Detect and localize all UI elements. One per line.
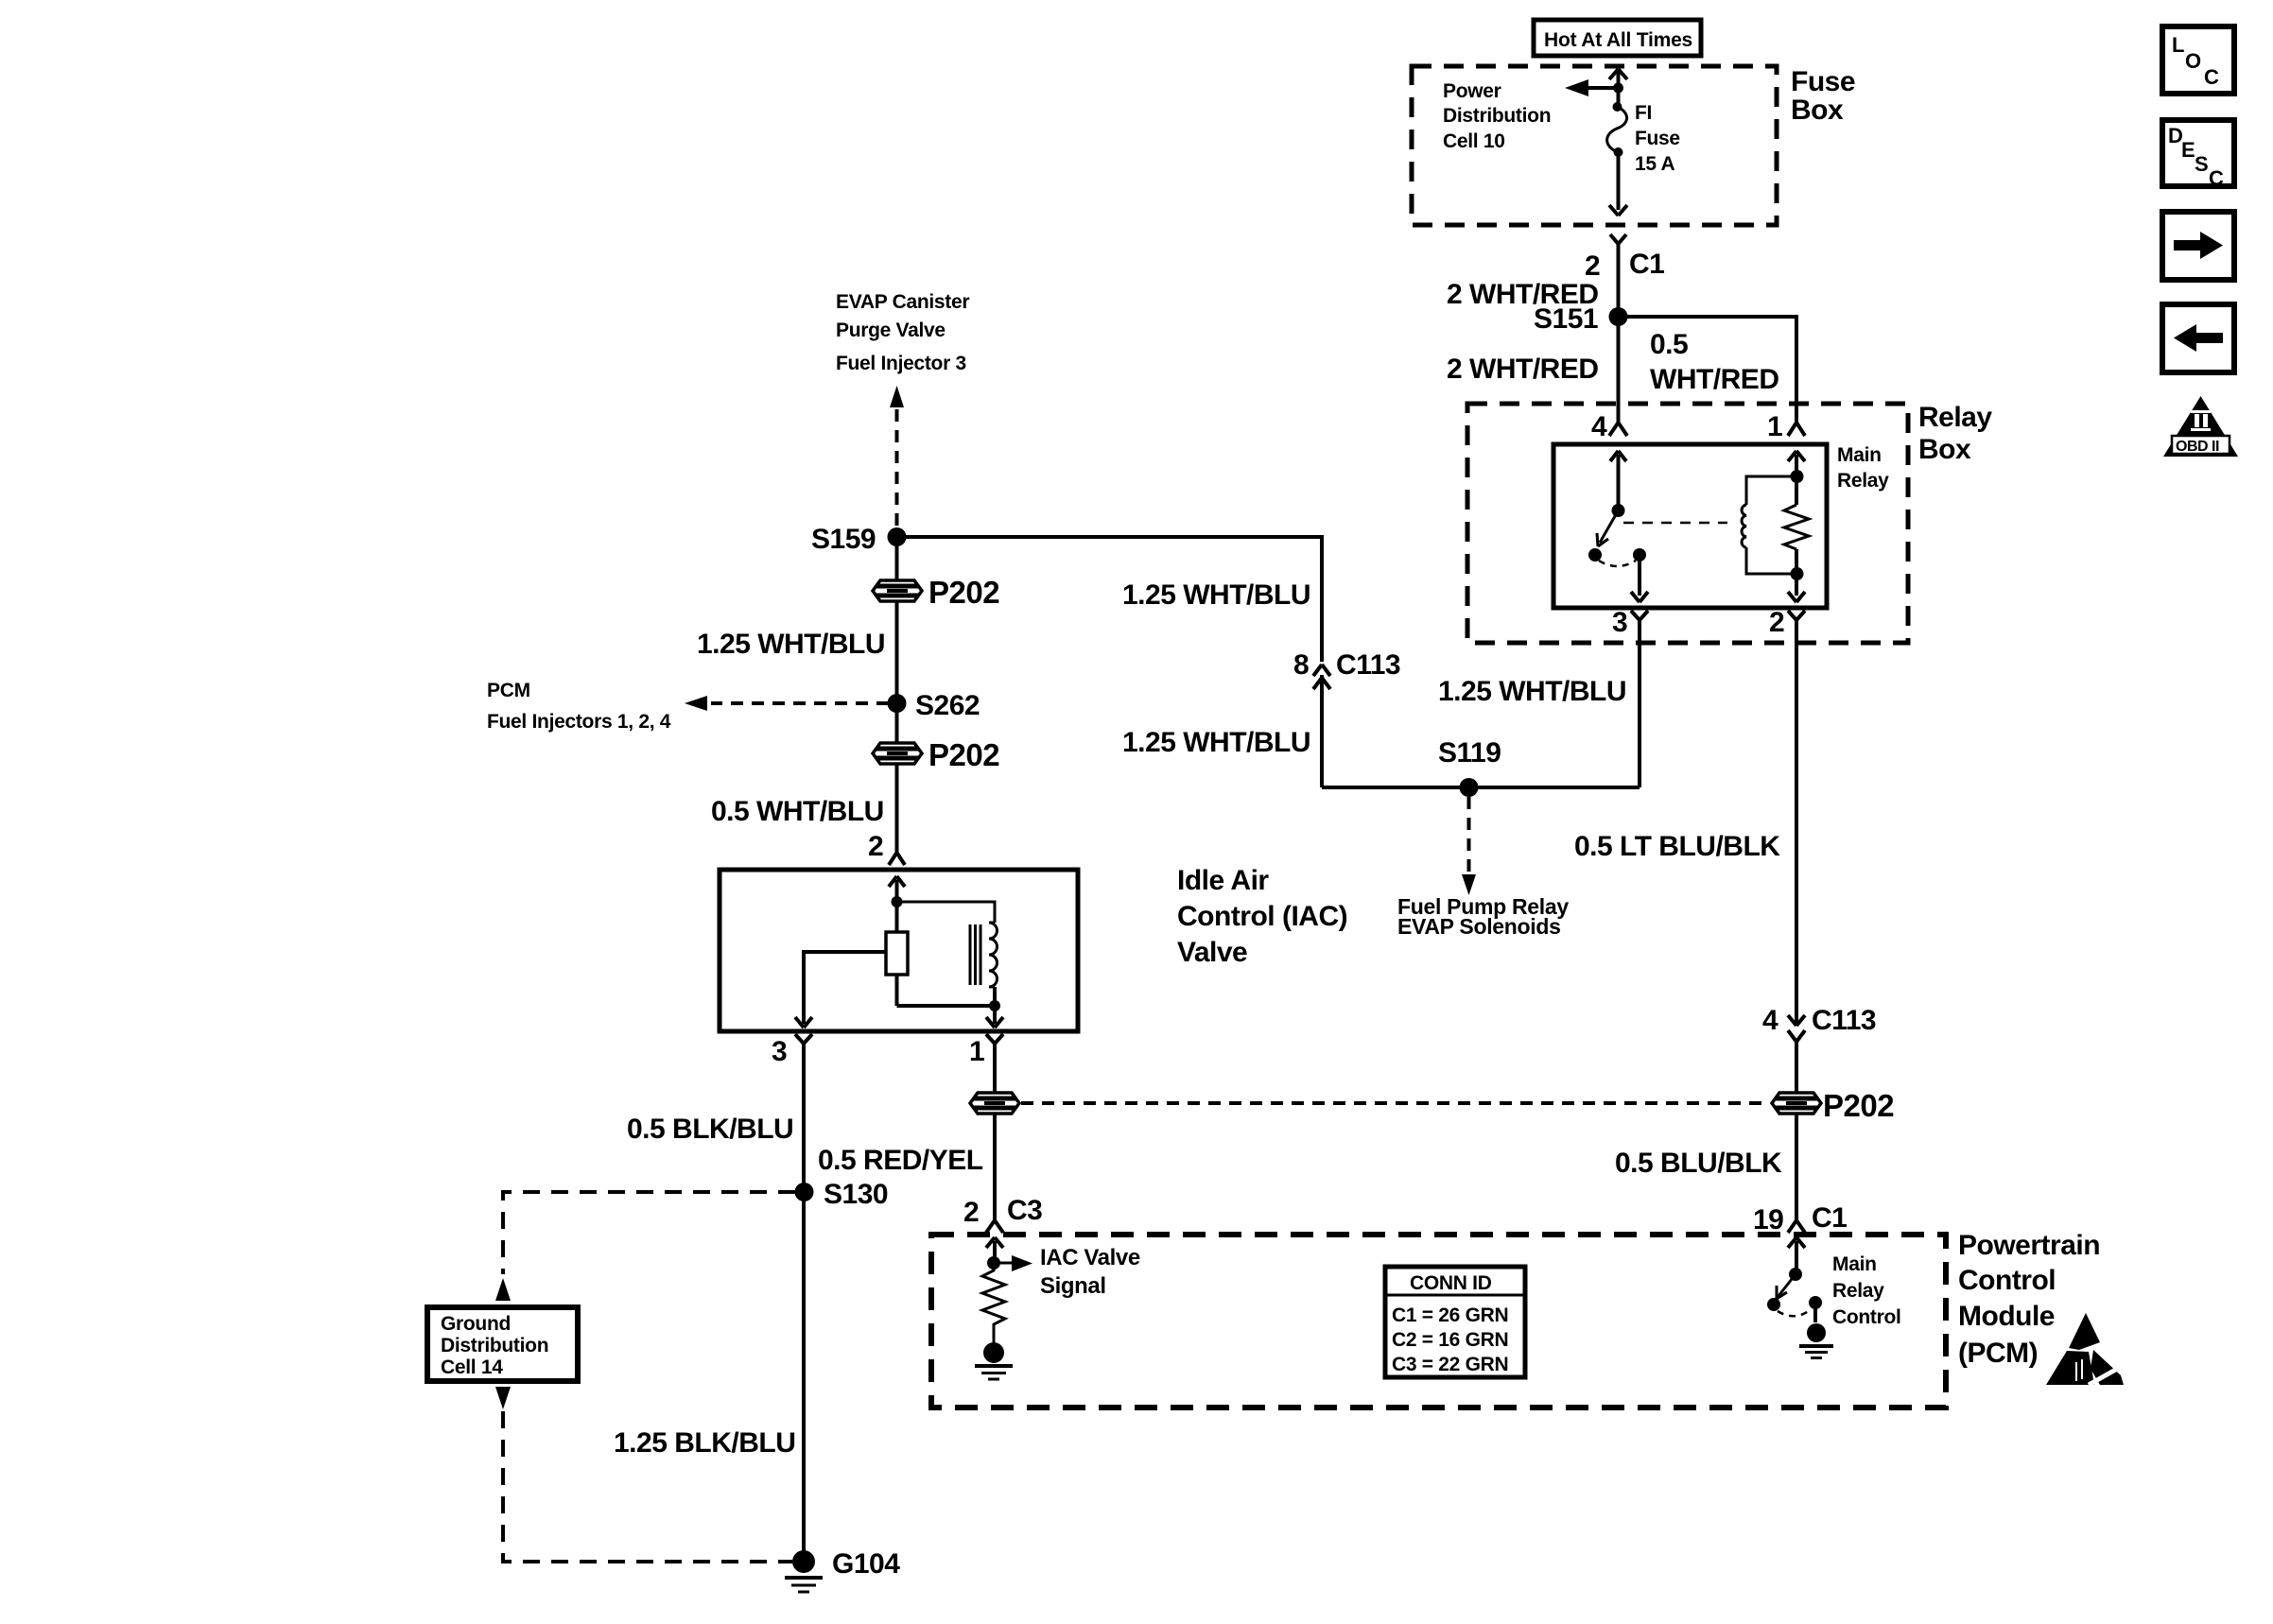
icon: DESC box bbox=[2162, 120, 2234, 190]
connector: IAC pin 3 (Y) bbox=[795, 1034, 812, 1054]
svg-text:S: S bbox=[2195, 152, 2209, 176]
svg-text:Box: Box bbox=[1791, 95, 1844, 126]
wire: fuse to connector C1 bbox=[1609, 152, 1627, 216]
svg-text:2 WHT/RED: 2 WHT/RED bbox=[1447, 354, 1599, 385]
svg-text:1.25 WHT/BLU: 1.25 WHT/BLU bbox=[697, 629, 885, 660]
connector P202 (grommet, upper) bbox=[873, 580, 922, 601]
svg-text:2: 2 bbox=[963, 1197, 979, 1228]
wire: S262 to P202 lower bbox=[895, 703, 899, 744]
label: Powertrain Control Module (PCM) bbox=[1958, 1230, 2100, 1369]
svg-text:Fuse: Fuse bbox=[1635, 128, 1680, 149]
icon: LOC box bbox=[2162, 26, 2234, 94]
icon: left arrow box bbox=[2162, 304, 2234, 372]
relay internal resistor R1 bbox=[1784, 476, 1809, 574]
label: PCM / Fuel Injectors 1, 2, 4 bbox=[487, 680, 671, 733]
svg-text:S151: S151 bbox=[1534, 303, 1598, 335]
main relay U1 (component box) bbox=[1553, 444, 1827, 608]
svg-text:EVAP Solenoids: EVAP Solenoids bbox=[1397, 914, 1561, 939]
label: FI Fuse 15 A bbox=[1635, 102, 1680, 175]
wire: 0.5 BLK/BLU IAC pin 3 to S130 bbox=[802, 1054, 806, 1192]
wire: S159 branch to C113 pin 8 bbox=[897, 537, 1323, 662]
PCM box (dashed enclosure) bbox=[931, 1235, 1946, 1408]
connector: IAC pin 1 (Y) bbox=[986, 1034, 1003, 1054]
svg-text:OBD II: OBD II bbox=[2176, 439, 2219, 455]
svg-text:Power: Power bbox=[1443, 80, 1501, 102]
relay coil branch wire bbox=[1746, 451, 1805, 505]
svg-text:S262: S262 bbox=[915, 690, 980, 721]
PCM main relay control switch bbox=[1767, 1237, 1822, 1322]
dashed arrow: to EVAP canister purge valve bbox=[890, 386, 904, 529]
svg-text:Fuel Injector 3: Fuel Injector 3 bbox=[836, 353, 966, 374]
relay box (dashed enclosure) bbox=[1467, 404, 1908, 643]
label: EVAP Canister Purge Valve / Fuel Injector 3 bbox=[836, 291, 969, 374]
svg-text:1: 1 bbox=[969, 1036, 984, 1067]
wire: P202 to PCM pin 2 C3 bbox=[993, 1114, 997, 1218]
node S119 bbox=[1460, 778, 1479, 797]
svg-text:EVAP Canister: EVAP Canister bbox=[836, 291, 969, 313]
wire: 2 WHT/RED from C1 to S151 bbox=[1617, 253, 1621, 317]
svg-text:S159: S159 bbox=[811, 524, 876, 555]
svg-text:0.5 LT BLU/BLK: 0.5 LT BLU/BLK bbox=[1574, 831, 1780, 862]
node S130 bbox=[795, 1183, 814, 1201]
arrow from ground distribution box bbox=[495, 1387, 511, 1409]
svg-text:FI: FI bbox=[1635, 102, 1652, 124]
connector: relay pin 2 (Y) bbox=[1788, 611, 1805, 643]
svg-text:Control: Control bbox=[1832, 1306, 1901, 1328]
IAC valve component box bbox=[720, 870, 1078, 1031]
node: junction to power distribution bbox=[1613, 83, 1623, 94]
connector P202 (grommet, lower) bbox=[873, 743, 922, 764]
IAC pin 3 exit arrow bbox=[795, 1017, 812, 1028]
svg-text:Relay: Relay bbox=[1918, 402, 1992, 433]
svg-text:WHT/RED: WHT/RED bbox=[1650, 364, 1778, 395]
svg-text:2: 2 bbox=[1585, 251, 1600, 282]
IAC actuator R (slider block) bbox=[886, 902, 908, 1006]
ground G104 bbox=[785, 1550, 823, 1592]
connector C3 pin 2 (chevron) bbox=[986, 1218, 1003, 1233]
IAC coil branch top wire bbox=[897, 902, 996, 923]
icon: right arrow box bbox=[2162, 212, 2234, 280]
wire: 1.25 WHT/BLU P202 to S262 bbox=[895, 601, 899, 703]
IAC solenoid coil L bbox=[970, 923, 998, 987]
svg-text:P202: P202 bbox=[928, 737, 999, 772]
svg-text:8: 8 bbox=[1293, 649, 1309, 681]
svg-text:C: C bbox=[2209, 166, 2224, 190]
arrow to ground distribution box bbox=[495, 1278, 511, 1301]
svg-text:Relay: Relay bbox=[1837, 470, 1889, 492]
svg-text:O: O bbox=[2185, 49, 2201, 73]
svg-text:1.25 BLK/BLU: 1.25 BLK/BLU bbox=[614, 1427, 795, 1459]
svg-text:Relay: Relay bbox=[1832, 1280, 1884, 1302]
connector P202 (grommet, IAC side) bbox=[970, 1093, 1019, 1114]
PCM internal ground (IAC signal) bbox=[975, 1342, 1013, 1379]
svg-text:Main: Main bbox=[1837, 444, 1882, 466]
wire: C113 to P202 bbox=[1795, 1049, 1798, 1093]
svg-text:C2 = 16 GRN: C2 = 16 GRN bbox=[1392, 1329, 1508, 1351]
label box: Ground Distribution Cell 14 bbox=[427, 1307, 578, 1381]
wire: branch to Power Distribution (left arrow) bbox=[1565, 79, 1619, 96]
svg-text:Signal: Signal bbox=[1040, 1273, 1106, 1299]
PCM IAC valve signal input wire bbox=[986, 1237, 1003, 1270]
svg-text:4: 4 bbox=[1762, 1005, 1778, 1036]
svg-text:Cell 10: Cell 10 bbox=[1443, 130, 1505, 152]
svg-text:C: C bbox=[2204, 65, 2219, 89]
svg-text:1.25 WHT/BLU: 1.25 WHT/BLU bbox=[1438, 676, 1626, 707]
label: Main Relay Control bbox=[1832, 1253, 1901, 1328]
connector C1 pin 2 (Y symbol) bbox=[1610, 234, 1626, 253]
dashed arrow: S262 to PCM / fuel injectors bbox=[685, 696, 889, 711]
connector: relay pin 4 (chevron) bbox=[1609, 423, 1627, 436]
svg-text:E: E bbox=[2181, 138, 2195, 162]
svg-text:0.5 WHT/BLU: 0.5 WHT/BLU bbox=[711, 796, 884, 827]
svg-text:0.5 BLU/BLK: 0.5 BLU/BLK bbox=[1615, 1148, 1782, 1179]
relay coil bottom wire bbox=[1746, 547, 1796, 574]
wire: 0.5 RED/YEL IAC pin 1 to P202 bbox=[993, 1054, 997, 1093]
svg-text:C3 = 22 GRN: C3 = 22 GRN bbox=[1392, 1354, 1508, 1375]
svg-text:Control: Control bbox=[1958, 1265, 2056, 1296]
label: Idle Air Control (IAC) Valve bbox=[1177, 865, 1347, 968]
svg-text:Distribution: Distribution bbox=[441, 1335, 548, 1356]
svg-text:4: 4 bbox=[1591, 411, 1607, 442]
wire: 2 WHT/RED from S151 to relay pin 4 bbox=[1617, 317, 1621, 423]
svg-text:0.5 RED/YEL: 0.5 RED/YEL bbox=[818, 1145, 983, 1176]
connector C113 pin 4 (arrow + chevron) bbox=[1788, 1010, 1805, 1049]
svg-text:Idle Air: Idle Air bbox=[1177, 865, 1269, 896]
node: coil/resistor bottom junction bbox=[1788, 567, 1805, 602]
svg-text:S119: S119 bbox=[1438, 737, 1501, 769]
dashed link between P202 grommets bbox=[1021, 1101, 1770, 1105]
PCM internal resistor (IAC driver) bbox=[982, 1263, 1005, 1342]
svg-text:Fuse: Fuse bbox=[1791, 66, 1855, 97]
svg-text:Hot At All Times: Hot At All Times bbox=[1544, 29, 1692, 51]
node S159 bbox=[888, 527, 907, 546]
svg-text:Cell 14: Cell 14 bbox=[441, 1356, 503, 1378]
wire: bus from C113 to relay pin 3 via S119 bbox=[1322, 786, 1640, 789]
svg-text:C113: C113 bbox=[1812, 1005, 1876, 1036]
svg-text:PCM: PCM bbox=[487, 680, 530, 701]
fuse box (dashed enclosure) bbox=[1412, 66, 1777, 225]
wire: S159 down to P202 bbox=[895, 537, 899, 581]
svg-text:Module: Module bbox=[1958, 1301, 2055, 1332]
relay switch common (pin 4 side) bbox=[1610, 451, 1626, 517]
svg-text:2: 2 bbox=[1769, 607, 1784, 638]
wire: 0.5 WHT/RED branch from S151 to relay pin 1 bbox=[1619, 317, 1797, 423]
connector: relay pin 1 (chevron) bbox=[1788, 423, 1805, 436]
svg-text:(PCM): (PCM) bbox=[1958, 1338, 2038, 1369]
label: IAC Valve Signal bbox=[1040, 1245, 1140, 1299]
svg-text:Ground: Ground bbox=[441, 1313, 511, 1335]
label: Power Distribution Cell 10 bbox=[1443, 80, 1551, 152]
svg-text:1.25 WHT/BLU: 1.25 WHT/BLU bbox=[1122, 579, 1310, 611]
svg-text:C3: C3 bbox=[1007, 1195, 1042, 1226]
svg-text:Purge Valve: Purge Valve bbox=[836, 320, 946, 341]
relay switch arm bbox=[1597, 510, 1619, 546]
svg-text:CONN ID: CONN ID bbox=[1410, 1272, 1492, 1294]
svg-text:3: 3 bbox=[772, 1036, 787, 1067]
wire: relay pin 2 down (0.5 LT BLU/BLK) bbox=[1795, 643, 1798, 1010]
label: Main Relay bbox=[1837, 444, 1889, 492]
svg-text:L: L bbox=[2172, 33, 2184, 57]
connector C113 pin 8 (double chevron up) bbox=[1313, 665, 1330, 787]
svg-text:C113: C113 bbox=[1336, 649, 1400, 681]
svg-text:Main: Main bbox=[1832, 1253, 1877, 1275]
dashed contact link bbox=[1599, 561, 1636, 566]
svg-text:15 A: 15 A bbox=[1635, 153, 1675, 175]
connector C1 pin 19 (chevron) bbox=[1788, 1218, 1805, 1233]
relay coil L1 bbox=[1742, 505, 1746, 547]
dashed actuation link switch-coil bbox=[1623, 522, 1727, 525]
dashed link: S130 to ground distribution bbox=[503, 1192, 795, 1274]
svg-text:Fuel Injectors 1, 2, 4: Fuel Injectors 1, 2, 4 bbox=[487, 711, 671, 733]
value label: 0.5 WHT/RED bbox=[1650, 329, 1778, 395]
svg-text:C1: C1 bbox=[1812, 1202, 1847, 1234]
wire: 0.5 WHT/BLU to IAC pin 2 bbox=[895, 764, 899, 850]
svg-text:0.5: 0.5 bbox=[1650, 329, 1688, 360]
svg-text:Control (IAC): Control (IAC) bbox=[1177, 901, 1347, 932]
svg-text:0.5 BLK/BLU: 0.5 BLK/BLU bbox=[627, 1114, 793, 1145]
svg-text:2: 2 bbox=[868, 831, 883, 862]
wire: 0.5 BLU/BLK P202 to PCM pin 19 bbox=[1795, 1114, 1798, 1218]
wire: battery feed into fuse box bbox=[1609, 69, 1627, 88]
svg-text:C1 = 26 GRN: C1 = 26 GRN bbox=[1392, 1304, 1508, 1326]
PCM internal ground (main relay control) bbox=[1799, 1323, 1833, 1358]
label: Fuel Pump Relay / EVAP Solenoids bbox=[1397, 894, 1569, 939]
svg-text:Powertrain: Powertrain bbox=[1958, 1230, 2100, 1261]
svg-text:Box: Box bbox=[1918, 434, 1971, 465]
svg-text:19: 19 bbox=[1753, 1204, 1783, 1235]
svg-text:3: 3 bbox=[1612, 607, 1627, 638]
connector: relay pin 3 (Y) bbox=[1631, 611, 1648, 643]
icon: ESD warning symbol bbox=[2046, 1313, 2124, 1385]
CONN ID table bbox=[1385, 1267, 1525, 1377]
svg-text:Valve: Valve bbox=[1177, 937, 1247, 968]
svg-text:P202: P202 bbox=[1823, 1088, 1894, 1123]
wire: 1.25 BLK/BLU S130 to G104 bbox=[802, 1192, 806, 1556]
IAC coil bottom wire to junction bbox=[897, 987, 1004, 1028]
IAC wiper wire to pin 3 bbox=[804, 952, 886, 1024]
node label: Hot At All Times bbox=[1534, 20, 1701, 56]
connector: IAC pin 2 (chevron) bbox=[889, 850, 905, 865]
relay switch contact (to pin 3) bbox=[1588, 548, 1602, 561]
svg-text:S130: S130 bbox=[824, 1179, 888, 1210]
svg-text:1: 1 bbox=[1767, 411, 1782, 442]
svg-text:1.25 WHT/BLU: 1.25 WHT/BLU bbox=[1122, 727, 1310, 758]
IAC internal feed wire (pin 2) bbox=[889, 876, 905, 907]
wire: relay pin 3 down to S119 bus bbox=[1638, 643, 1641, 787]
icon: OBD II triangle bbox=[2163, 396, 2238, 457]
svg-text:P202: P202 bbox=[928, 575, 999, 610]
fuse FI 15 A bbox=[1607, 88, 1627, 157]
connector P202 (grommet, right) bbox=[1772, 1093, 1821, 1114]
svg-text:C1: C1 bbox=[1629, 249, 1664, 280]
dashed arrow: S119 to fuel pump relay / EVAP solenoids bbox=[1462, 797, 1476, 895]
svg-text:G104: G104 bbox=[832, 1548, 900, 1580]
relay contact node to pin 3 bbox=[1631, 548, 1648, 602]
dashed link: ground distribution to G104 bbox=[503, 1411, 792, 1562]
signal tap arrow: IAC valve signal bbox=[994, 1255, 1032, 1271]
node S262 bbox=[888, 694, 907, 713]
node S151 bbox=[1609, 307, 1628, 326]
svg-text:IAC Valve: IAC Valve bbox=[1040, 1245, 1140, 1270]
svg-text:Distribution: Distribution bbox=[1443, 105, 1551, 127]
